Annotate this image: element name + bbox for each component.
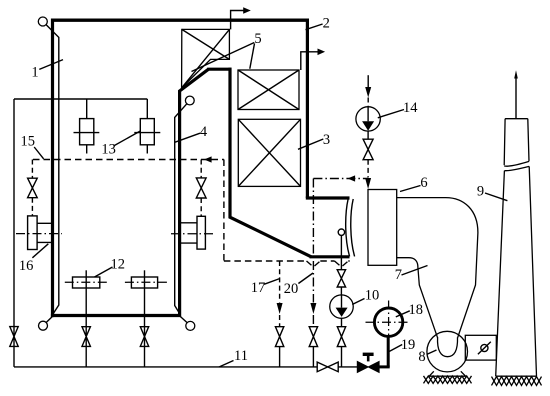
fan base [429, 371, 466, 376]
boiler furnace thick outline (walls 1) [51, 19, 309, 22]
horizontal gate valve on pipe 11 [317, 362, 338, 372]
svg-text:16: 16 [19, 258, 34, 274]
corner circle bottom-right [186, 321, 195, 330]
burner right on wall 4 [197, 216, 205, 249]
duct bottom thick to air heater [310, 255, 350, 258]
pointer 5b [250, 44, 255, 69]
line 15 right drop [200, 160, 202, 217]
chimney break curves [504, 161, 529, 166]
valve on left supply pipe [10, 327, 18, 347]
svg-text:19: 19 [401, 337, 416, 353]
pump 10 [330, 295, 354, 319]
pointer 6 [400, 186, 421, 192]
valve on branch 279.6 [275, 327, 283, 347]
branch to header at x 279.6 dashed [279, 261, 281, 327]
fan base hatching [424, 376, 472, 384]
fuel line 15 dashed [33, 159, 224, 161]
pointer 1 [39, 60, 63, 70]
svg-text:7: 7 [395, 267, 402, 283]
furnace right wall (4) thick [180, 69, 209, 316]
label pointer lines [32, 24, 507, 367]
valve on left drain [82, 327, 90, 347]
fan motor / damper box [465, 335, 496, 360]
fan 8 scroll circle [427, 331, 468, 372]
svg-text:3: 3 [323, 132, 330, 148]
svg-text:10: 10 [365, 288, 380, 304]
chimney base hatching [492, 377, 542, 386]
line 15 left drop [31, 160, 33, 216]
svg-text:14: 14 [403, 100, 418, 116]
pointer 13 [114, 131, 141, 146]
line 17 junction dips [307, 261, 349, 267]
svg-text:1: 1 [31, 65, 38, 81]
pointer 4 [175, 133, 200, 142]
pointer 7 [402, 266, 428, 276]
steam outlet arrow top [231, 11, 244, 30]
inner wall thin left [46, 25, 59, 315]
pointer 3 [298, 139, 323, 149]
corner circle at furnace nose [185, 96, 194, 105]
valve on right drain [140, 327, 148, 347]
hanging element 13 left [80, 119, 94, 145]
inner wall thin right [175, 104, 187, 315]
pointer 9 [485, 193, 507, 201]
line 20 top run dash-dot [313, 178, 368, 180]
left supply pipe [13, 99, 15, 367]
steam outlet arrow right [301, 52, 318, 70]
svg-text:9: 9 [477, 184, 484, 200]
burner 16 axis dash-dot [16, 233, 62, 235]
pointer 15 [34, 147, 43, 159]
svg-text:4: 4 [200, 124, 208, 140]
valve below pump 14 [363, 139, 373, 160]
hanging element 13 right [140, 119, 154, 145]
heat exchanger box 3 [238, 119, 300, 186]
pointer 17 [264, 279, 280, 285]
chimney top arrow [515, 78, 517, 119]
svg-text:2: 2 [323, 16, 330, 32]
platen tubes feed line [14, 99, 147, 119]
svg-text:13: 13 [101, 142, 116, 158]
svg-text:8: 8 [418, 349, 425, 365]
pointer 10 [352, 299, 364, 305]
valve on line 20 [309, 327, 317, 347]
line 17 dashed drop and run [224, 160, 350, 262]
svg-text:15: 15 [20, 134, 35, 150]
pointer 12 [95, 267, 113, 277]
shaft right wall thick (2) [306, 19, 309, 199]
water supply line to pump 14 [367, 75, 369, 88]
pointer 8 [427, 350, 437, 355]
superheater pentagon 5 [182, 29, 230, 88]
furnace exit step top thick [207, 68, 231, 71]
gauge 18 [374, 308, 402, 336]
svg-text:12: 12 [111, 257, 126, 273]
duct 7 outer boundary [397, 198, 478, 338]
thick valve with handle on 19 [357, 361, 379, 372]
thick pipe 19 [387, 336, 390, 367]
element 12 left [73, 277, 100, 288]
pump 14 [356, 107, 380, 131]
valve above pump 10 [337, 270, 345, 287]
element 12 right [131, 277, 157, 288]
duct top thick to air heater [306, 196, 350, 199]
valve below pump 10 [337, 327, 345, 347]
air heater 6 [368, 190, 397, 266]
line 20 dash-dot vertical [312, 179, 314, 327]
duct flexible joint wavy lines [346, 199, 350, 257]
pointer 11 [219, 361, 234, 368]
svg-text:11: 11 [234, 348, 248, 364]
burner 16 left [28, 216, 37, 250]
duct 7 inner boundary [397, 258, 438, 338]
svg-text:17: 17 [251, 280, 266, 296]
chimney 9 cap [504, 119, 529, 166]
water pickup circle in duct [338, 229, 344, 235]
pointer 5a [192, 43, 255, 72]
bottom header pipe 11 [14, 366, 357, 368]
corner circle top-left [38, 17, 47, 26]
valve right burner [196, 178, 206, 198]
svg-text:5: 5 [254, 31, 261, 47]
heat exchanger box 5b [238, 70, 299, 110]
svg-text:20: 20 [284, 281, 299, 297]
pointer 2 [306, 24, 323, 30]
valve left burner [28, 178, 38, 198]
arrow on line 15 [204, 156, 212, 162]
damper circle and handle [481, 344, 488, 351]
drain line left with element 12 [85, 270, 87, 367]
chimney body [496, 166, 537, 376]
burner right axis dash-dot [171, 233, 215, 235]
pointer 18 [396, 311, 410, 317]
pointer 14 [378, 110, 404, 118]
fan 8 inner inlet arc [438, 337, 458, 357]
drain line right with element 12 [144, 270, 146, 367]
pointer 16 [32, 244, 48, 258]
pointer 20 [298, 273, 313, 284]
corner circle bottom-left [39, 321, 48, 330]
shaft left wall thick [230, 68, 311, 257]
svg-text:6: 6 [420, 175, 427, 191]
svg-text:18: 18 [409, 302, 424, 318]
pointer 19 [389, 345, 402, 352]
